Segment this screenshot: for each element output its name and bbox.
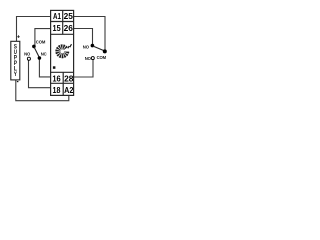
svg-text:NC: NC bbox=[41, 52, 47, 57]
wire NO left to 18 bbox=[29, 60, 51, 87]
svg-text:16: 16 bbox=[52, 74, 61, 83]
wire COM left to 15 bbox=[35, 29, 51, 46]
contact group right: NO node top bbox=[91, 44, 95, 48]
indicator dot bbox=[53, 66, 56, 69]
svg-text:NO: NO bbox=[24, 51, 31, 56]
svg-text:18: 18 bbox=[53, 86, 61, 95]
timer icon bbox=[56, 45, 70, 59]
svg-text:A1: A1 bbox=[53, 12, 61, 21]
relay body outline bbox=[51, 10, 74, 95]
svg-text:26: 26 bbox=[64, 24, 74, 33]
svg-text:25: 25 bbox=[64, 12, 74, 21]
contact NO left (open) bbox=[27, 57, 30, 60]
lever COM-NC left bbox=[34, 47, 39, 57]
svg-text:NO: NO bbox=[83, 44, 90, 49]
wire NC left to 16 bbox=[39, 59, 50, 77]
svg-text:COM: COM bbox=[36, 40, 46, 45]
terminal block top bbox=[51, 10, 74, 34]
wire 28 to NO right bbox=[74, 60, 93, 77]
timer pointer dash 2 bbox=[70, 44, 72, 47]
svg-text:15: 15 bbox=[53, 24, 62, 33]
svg-text:A2: A2 bbox=[64, 86, 74, 95]
svg-text:NO: NO bbox=[85, 56, 92, 61]
svg-text:COM: COM bbox=[97, 55, 107, 60]
timer pointer dash 1 bbox=[68, 46, 69, 48]
lever NO-COM right bbox=[93, 46, 104, 51]
terminal block bottom bbox=[51, 72, 74, 95]
wire supply+ to A1 bbox=[17, 17, 51, 42]
wire 26 to NO right top bbox=[74, 29, 93, 45]
supply box bbox=[11, 41, 20, 80]
contact NC left bbox=[38, 56, 42, 60]
svg-text:28: 28 bbox=[64, 75, 74, 84]
supply minus label bbox=[17, 81, 19, 83]
wire supply- to A2 bbox=[16, 80, 69, 101]
contact group left: COM node bbox=[32, 45, 36, 49]
contact COM right bbox=[103, 49, 107, 53]
wire 25 to COM right bbox=[74, 17, 105, 50]
contact NO right (open) bbox=[91, 57, 94, 60]
